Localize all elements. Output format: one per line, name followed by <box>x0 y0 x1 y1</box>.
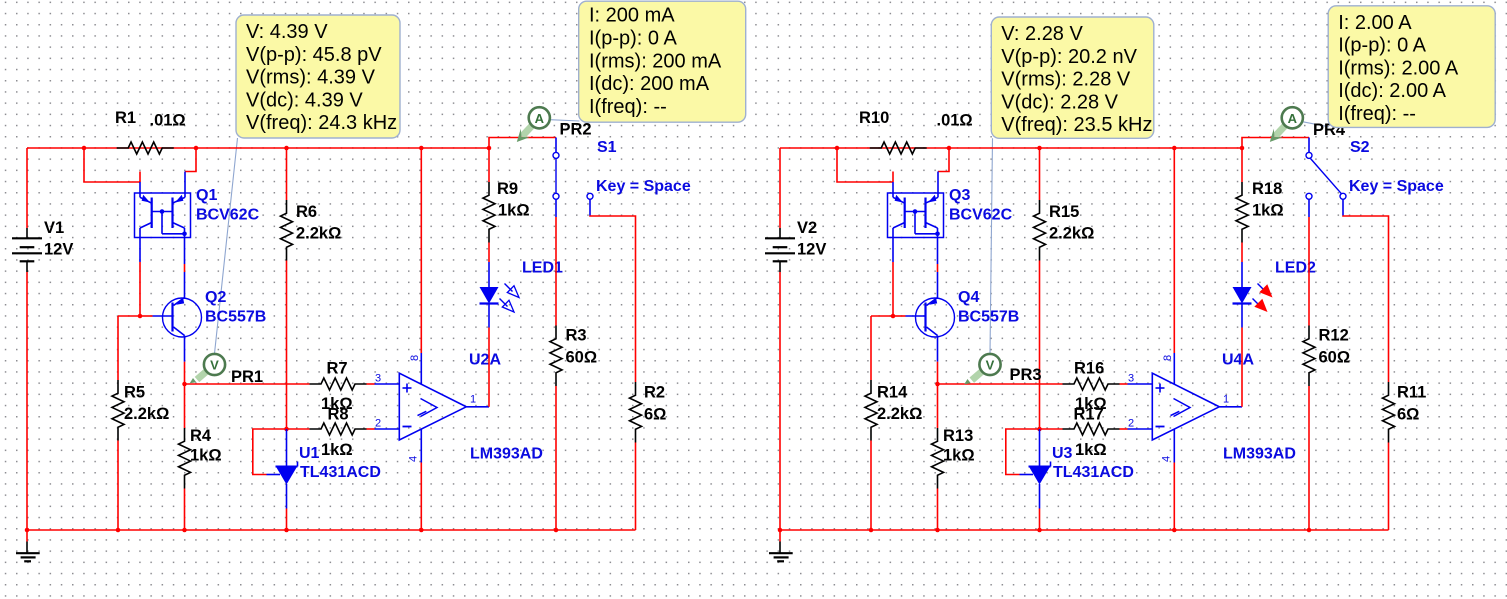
label R7 <box>327 360 348 378</box>
svg-text:I(dc): 2.00 A: I(dc): 2.00 A <box>1338 80 1446 102</box>
svg-text:R9: R9 <box>497 180 518 198</box>
wire R12 bottom <box>1308 386 1310 530</box>
svg-text:6Ω: 6Ω <box>644 406 666 424</box>
label R2 <box>644 384 665 402</box>
probe PR3 (V) <box>964 354 1000 384</box>
svg-text:S2: S2 <box>1350 139 1370 156</box>
svg-text:8: 8 <box>409 355 421 361</box>
svg-text:I(freq): --: I(freq): -- <box>589 96 667 118</box>
label U2A pin 1 <box>470 394 476 406</box>
label R5 <box>124 384 145 402</box>
ground <box>16 530 40 561</box>
wire stub at Q3 emitter1 <box>892 172 894 183</box>
svg-text:1: 1 <box>1223 394 1229 406</box>
label R4 <box>190 427 212 445</box>
label R12 <box>1319 327 1349 345</box>
node junction rail R18 branch <box>1240 146 1245 151</box>
svg-text:Q4: Q4 <box>958 289 979 306</box>
label Q2 <box>205 289 226 306</box>
label R17 <box>1074 406 1104 424</box>
measurement box PR1 readings <box>236 15 400 138</box>
wire bottom ground rail <box>27 529 636 531</box>
label U2A pin 8 <box>409 355 421 361</box>
node junction rail-right of R10 <box>947 146 952 151</box>
svg-text:60Ω: 60Ω <box>566 349 598 367</box>
wire Q4 collector down <box>937 362 939 384</box>
svg-text:1: 1 <box>470 394 476 406</box>
probe PR4 (A) <box>1270 107 1303 142</box>
label U2A <box>469 352 501 369</box>
wire to Q2 base <box>140 315 153 317</box>
wire stub at Q1 emitter1 <box>139 172 141 183</box>
label U3 type <box>1053 464 1134 481</box>
node R3 ground junction <box>554 528 559 533</box>
wire top rail V+ <box>27 147 489 149</box>
svg-text:4: 4 <box>408 456 420 462</box>
wire V1 positive drop <box>26 148 28 228</box>
svg-text:Q3: Q3 <box>949 187 970 204</box>
svg-text:A: A <box>1288 111 1298 126</box>
wire V1 negative to rail <box>26 272 28 530</box>
transistor Q3 BCV62C dual PNP <box>888 172 944 238</box>
resistor R9 1k <box>483 182 495 243</box>
svg-text:V(rms): 2.28 V: V(rms): 2.28 V <box>1001 69 1131 91</box>
wire R15 top lead <box>1039 148 1041 200</box>
wire R17 feed <box>1040 428 1063 430</box>
wire R16 to op-amp <box>1120 383 1128 385</box>
label R10 value <box>937 112 973 130</box>
label R12 value <box>1319 349 1351 367</box>
svg-text:I(freq): --: I(freq): -- <box>1338 103 1416 125</box>
wire R2 bottom <box>635 443 637 531</box>
svg-text:R5: R5 <box>124 384 145 402</box>
wire U4A output up to LED <box>1241 328 1243 407</box>
wire switch to R3 <box>555 217 557 326</box>
wire R4 bottom <box>184 489 186 531</box>
label R4 value <box>190 447 222 465</box>
wire pointer line box2 to PR2 <box>550 120 580 121</box>
probe PR1 (V) <box>190 354 225 383</box>
node junction rail R15 branch <box>1037 146 1042 151</box>
node R4 ground junction <box>182 528 187 533</box>
switch S1 SPDT <box>553 138 593 218</box>
label U2A pin 4 <box>408 456 420 462</box>
wire throw2 to R11 <box>1343 216 1389 383</box>
wire op-amp pin8 supply <box>420 148 422 353</box>
svg-text:V: 2.28 V: V: 2.28 V <box>1001 23 1083 45</box>
label R3 value <box>566 349 598 367</box>
label U1 type <box>300 464 381 481</box>
label R9 value <box>498 202 530 220</box>
svg-text:R1: R1 <box>115 109 136 127</box>
node R8 input junction <box>284 427 289 432</box>
switch S2 SPDT <box>1306 138 1346 218</box>
label Q4 type <box>958 309 1019 326</box>
wire R3 bottom <box>555 386 557 530</box>
transistor Q2 BC557B PNP <box>153 298 202 362</box>
wire R5 top <box>117 316 119 380</box>
wire U4A pin4 to rail <box>1173 463 1175 531</box>
svg-text:4: 4 <box>1161 456 1173 462</box>
label R1 value <box>150 112 186 130</box>
svg-text:LM393AD: LM393AD <box>470 446 543 463</box>
svg-text:V(rms): 4.39 V: V(rms): 4.39 V <box>246 67 376 89</box>
svg-text:R4: R4 <box>190 427 212 445</box>
label S1 <box>597 139 617 156</box>
transistor Q4 BC557B PNP <box>906 298 955 362</box>
label LED1 <box>522 260 563 277</box>
wire Q3 collector2 to Q4 emitter <box>937 238 939 298</box>
resistor R3 60ohm <box>550 326 562 387</box>
svg-text:BC557B: BC557B <box>205 309 266 326</box>
wire bottom ground rail <box>780 529 1389 531</box>
node junction ground <box>25 528 30 533</box>
resistor R15 2.2k <box>1034 200 1046 261</box>
wire R17 to op-amp <box>1120 428 1128 430</box>
wire R9 to LED1 <box>488 243 490 263</box>
svg-text:S1: S1 <box>597 139 617 156</box>
battery V2 12V <box>765 228 795 272</box>
resistor R2 6ohm <box>630 382 642 443</box>
svg-text:1kΩ: 1kΩ <box>1252 202 1284 220</box>
node junction rail-left of R1 <box>82 146 87 151</box>
label Q1 type <box>196 207 260 224</box>
svg-text:R8: R8 <box>328 406 349 424</box>
label R18 <box>1252 180 1282 198</box>
label U4A pin 4 <box>1161 456 1173 462</box>
measurement box PR3 readings <box>991 17 1154 138</box>
label V1 <box>44 219 64 237</box>
wire R7 to op-amp <box>367 383 375 385</box>
wire Q1 emitter2 feed <box>185 148 196 172</box>
label U4A pin 2 <box>1128 418 1134 430</box>
svg-text:V(p-p): 20.2 nV: V(p-p): 20.2 nV <box>1001 46 1137 68</box>
label R9 <box>497 180 518 198</box>
label R6 value <box>296 225 341 243</box>
wire R9 top lead <box>488 148 490 182</box>
svg-text:LED2: LED2 <box>1275 260 1316 277</box>
label U1 <box>299 445 320 462</box>
transistor Q1 BCV62C dual PNP <box>135 172 191 238</box>
measurement box PR4 readings <box>1328 6 1495 128</box>
svg-text:V: V <box>210 358 219 373</box>
node junction rail op-amp vcc <box>419 146 424 151</box>
label R18 value <box>1252 202 1284 220</box>
svg-text:Q2: Q2 <box>205 289 226 306</box>
node U2A pin4 ground junction <box>419 528 424 533</box>
node R17 input junction <box>1037 427 1042 432</box>
label U2A pin 2 <box>375 418 381 430</box>
svg-text:I(rms): 2.00 A: I(rms): 2.00 A <box>1338 57 1459 79</box>
wire R6 top lead <box>286 148 288 200</box>
svg-text:R2: R2 <box>644 384 665 402</box>
resistor R4 1k <box>179 428 191 489</box>
svg-text:I: 2.00 A: I: 2.00 A <box>1338 12 1412 34</box>
svg-text:LED1: LED1 <box>522 260 563 277</box>
svg-text:I(p-p): 0 A: I(p-p): 0 A <box>1338 35 1426 57</box>
svg-text:R15: R15 <box>1049 203 1079 221</box>
wire R8 feed <box>287 428 310 430</box>
label U2A type <box>470 446 543 463</box>
svg-text:.01Ω: .01Ω <box>150 112 186 130</box>
wire R6 bottom <box>286 261 288 430</box>
wire U1 anode to rail <box>286 509 288 531</box>
wire jog to switch S1 <box>489 138 556 149</box>
shunt reference U1 TL431ACD <box>267 429 298 509</box>
wire node to R7 <box>185 383 310 385</box>
wire Q2 collector down <box>184 362 186 384</box>
wire U3 feedback loop <box>1006 429 1040 475</box>
svg-text:TL431ACD: TL431ACD <box>1053 464 1134 481</box>
ground <box>769 530 793 561</box>
svg-text:R7: R7 <box>327 360 348 378</box>
probe PR2 (A) <box>517 107 550 142</box>
label LED2 <box>1275 260 1316 277</box>
label U4A <box>1222 352 1254 369</box>
label S2 key <box>1349 178 1444 195</box>
wire Q3 emitter2 feed <box>938 148 949 172</box>
label R7 value <box>321 395 353 413</box>
label R14 value <box>877 405 922 423</box>
node junction rail op-amp vcc <box>1172 146 1177 151</box>
label R11 value <box>1397 406 1419 424</box>
svg-text:V(p-p): 45.8 pV: V(p-p): 45.8 pV <box>246 44 382 66</box>
svg-text:R10: R10 <box>859 109 889 127</box>
svg-text:BCV62C: BCV62C <box>196 207 260 224</box>
node junction ground <box>778 528 783 533</box>
label U2A pin 3 <box>375 373 381 385</box>
label R8 <box>328 406 349 424</box>
label Q3 <box>949 187 970 204</box>
resistor R7 1k <box>310 378 367 390</box>
resistor R8 1k <box>310 423 367 435</box>
battery V1 12V <box>12 228 42 272</box>
node junction rail R9 branch <box>487 146 492 151</box>
svg-text:1kΩ: 1kΩ <box>321 441 353 459</box>
svg-text:Key = Space: Key = Space <box>1349 178 1444 195</box>
svg-text:V(dc): 2.28 V: V(dc): 2.28 V <box>1001 91 1118 113</box>
svg-text:I(dc): 200 mA: I(dc): 200 mA <box>589 73 710 95</box>
wire R14 top <box>870 316 872 380</box>
svg-text:2: 2 <box>1128 418 1134 430</box>
LED LED1 <box>480 262 520 328</box>
svg-text:V(freq): 24.3 kHz: V(freq): 24.3 kHz <box>246 112 397 134</box>
svg-text:.01Ω: .01Ω <box>937 112 973 130</box>
wire U2A pin4 to rail <box>420 463 422 531</box>
node R13 ground junction <box>935 528 940 533</box>
svg-text:U2A: U2A <box>469 352 501 369</box>
svg-text:PR1: PR1 <box>231 368 263 386</box>
svg-text:2.2kΩ: 2.2kΩ <box>877 405 922 423</box>
wire R5 bottom <box>117 441 119 531</box>
svg-text:60Ω: 60Ω <box>1319 349 1351 367</box>
wire R14 bottom <box>870 441 872 531</box>
shunt reference U3 TL431ACD <box>1020 429 1051 509</box>
svg-text:2.2kΩ: 2.2kΩ <box>124 405 169 423</box>
label V1 value <box>44 241 73 259</box>
wire throw2 to R2 <box>590 216 636 383</box>
label R8 value <box>321 441 353 459</box>
label R13 <box>943 427 973 445</box>
svg-text:PR3: PR3 <box>1010 366 1042 384</box>
svg-text:PR2: PR2 <box>560 121 592 139</box>
op-amp U2A LM393AD comparator <box>375 353 490 463</box>
wire to R5 <box>118 315 140 317</box>
svg-text:V: V <box>986 358 995 373</box>
svg-text:TL431ACD: TL431ACD <box>300 464 381 481</box>
svg-text:2.2kΩ: 2.2kΩ <box>1049 225 1094 243</box>
svg-text:R18: R18 <box>1252 180 1282 198</box>
node R5 ground junction <box>116 528 121 533</box>
svg-text:I: 200 mA: I: 200 mA <box>589 5 675 27</box>
label R15 value <box>1049 225 1094 243</box>
resistor R18 1k <box>1236 182 1248 243</box>
svg-text:1kΩ: 1kΩ <box>943 447 975 465</box>
svg-text:2.2kΩ: 2.2kΩ <box>296 225 341 243</box>
resistor R5 2.2k <box>112 380 124 441</box>
label R5 value <box>124 405 169 423</box>
svg-text:6Ω: 6Ω <box>1397 406 1419 424</box>
label R10 <box>859 109 889 127</box>
svg-text:1kΩ: 1kΩ <box>1075 441 1107 459</box>
svg-text:I(rms): 200 mA: I(rms): 200 mA <box>589 50 722 72</box>
label U3 <box>1052 445 1073 462</box>
svg-text:R16: R16 <box>1074 360 1104 378</box>
resistor R11 6ohm <box>1383 382 1395 443</box>
measurement box PR2 readings <box>579 1 746 122</box>
svg-text:2: 2 <box>375 418 381 430</box>
svg-text:R13: R13 <box>943 427 973 445</box>
svg-text:R6: R6 <box>296 203 317 221</box>
wire Q1 collector1 down <box>139 238 141 317</box>
wire top rail V+ <box>780 147 1242 149</box>
label Q2 type <box>205 309 266 326</box>
label Q4 <box>958 289 979 306</box>
node probe point PR3 <box>935 382 940 387</box>
svg-text:R11: R11 <box>1397 384 1426 402</box>
wire U3 anode to rail <box>1039 509 1041 531</box>
label R16 value <box>1075 395 1107 413</box>
wire to R14 <box>871 315 893 317</box>
svg-text:1kΩ: 1kΩ <box>498 202 530 220</box>
svg-text:R3: R3 <box>566 327 587 345</box>
svg-text:Key = Space: Key = Space <box>596 178 691 195</box>
svg-text:I(p-p): 0 A: I(p-p): 0 A <box>589 28 677 50</box>
resistor R14 2.2k <box>865 380 877 441</box>
resistor R17 1k <box>1063 423 1120 435</box>
resistor R12 60ohm <box>1303 326 1315 387</box>
svg-text:V: 4.39 V: V: 4.39 V <box>246 21 328 43</box>
wire R13 top <box>937 384 939 428</box>
svg-text:R14: R14 <box>877 384 908 402</box>
svg-text:U1: U1 <box>299 445 320 462</box>
wire Q1 collector2 to Q2 emitter <box>184 238 186 298</box>
svg-text:U3: U3 <box>1052 445 1073 462</box>
label S1 key <box>596 178 691 195</box>
wire V2 positive drop <box>779 148 781 228</box>
svg-text:12V: 12V <box>797 241 826 259</box>
svg-text:8: 8 <box>1162 355 1174 361</box>
resistor R6 2.2k <box>281 200 293 261</box>
label R17 value <box>1075 441 1107 459</box>
wire U2A output up to LED <box>488 328 490 407</box>
label S2 <box>1350 139 1370 156</box>
resistor R1 .01ohm <box>117 142 174 154</box>
svg-text:V1: V1 <box>44 219 64 237</box>
label U4A pin 1 <box>1223 394 1229 406</box>
op-amp U4A LM393AD comparator <box>1128 353 1243 463</box>
node R14 ground junction <box>869 528 874 533</box>
wire pointer line box4 to PR4 <box>1303 122 1329 127</box>
wire R8 to op-amp <box>367 428 375 430</box>
node junction rail-left of R10 <box>835 146 840 151</box>
resistor R16 1k <box>1063 378 1120 390</box>
svg-text:A: A <box>535 111 545 126</box>
label R13 value <box>943 447 975 465</box>
node R14/Q4 base junction <box>891 314 896 319</box>
label U4A pin 8 <box>1162 355 1174 361</box>
node U3 ground junction <box>1037 528 1042 533</box>
svg-text:V(dc): 4.39 V: V(dc): 4.39 V <box>246 89 363 111</box>
svg-text:3: 3 <box>1128 373 1134 385</box>
svg-text:R17: R17 <box>1074 406 1104 424</box>
wire node to R16 <box>938 383 1063 385</box>
node junction rail-right of R1 <box>194 146 199 151</box>
svg-text:12V: 12V <box>44 241 73 259</box>
svg-text:BC557B: BC557B <box>958 309 1019 326</box>
wire R1 bypass down <box>84 148 140 182</box>
wire V2 negative to rail <box>779 272 781 530</box>
label Q3 type <box>949 207 1013 224</box>
wire jog to switch S2 <box>1242 138 1309 149</box>
wire switch to R12 <box>1308 217 1310 326</box>
svg-text:Q1: Q1 <box>196 187 217 204</box>
wire R18 top lead <box>1241 148 1243 182</box>
label R6 <box>296 203 317 221</box>
label U4A type <box>1223 446 1296 463</box>
label R3 <box>566 327 587 345</box>
label R15 <box>1049 203 1079 221</box>
svg-text:3: 3 <box>375 373 381 385</box>
svg-text:R12: R12 <box>1319 327 1349 345</box>
svg-text:V2: V2 <box>797 219 817 237</box>
resistor R10 .01ohm <box>870 142 927 154</box>
label R14 <box>877 384 908 402</box>
label R16 <box>1074 360 1104 378</box>
wire op-amp pin8 supply <box>1173 148 1175 353</box>
node R5/Q2 base junction <box>138 314 143 319</box>
resistor R13 1k <box>932 428 944 489</box>
node junction rail R6 branch <box>284 146 289 151</box>
svg-text:1kΩ: 1kΩ <box>190 447 222 465</box>
svg-text:U4A: U4A <box>1222 352 1254 369</box>
wire U1 feedback loop <box>253 429 287 475</box>
label R11 <box>1397 384 1426 402</box>
label Q1 <box>196 187 217 204</box>
wire R4 top <box>184 384 186 428</box>
wire to Q4 base <box>893 315 906 317</box>
LED LED2 <box>1233 262 1273 328</box>
svg-text:V(freq): 23.5 kHz: V(freq): 23.5 kHz <box>1001 114 1152 136</box>
wire pointer line box3 to PR3 <box>990 138 993 354</box>
wire pointer line box1 to PR1 <box>215 138 238 354</box>
wire R10 bypass down <box>837 148 893 182</box>
label U4A pin 3 <box>1128 373 1134 385</box>
node U1 ground junction <box>284 528 289 533</box>
svg-text:LM393AD: LM393AD <box>1223 446 1296 463</box>
wire R11 bottom <box>1388 443 1390 531</box>
svg-text:BCV62C: BCV62C <box>949 207 1013 224</box>
